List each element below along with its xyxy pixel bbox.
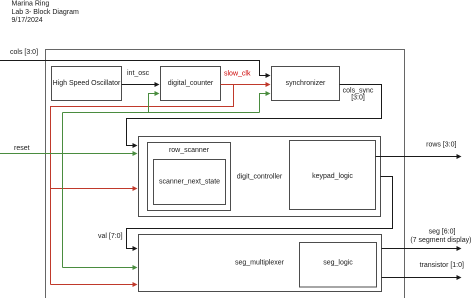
arrowhead reset into digital_counter [155, 91, 160, 96]
arrowhead slow_clk into digit_controller [133, 186, 138, 191]
arrowhead cols into synchronizer [266, 73, 271, 78]
wire reset distribution vertical (green) [62, 113, 64, 268]
arrowhead slow_clk into seg_multiplexer [133, 282, 138, 287]
wire reset branch up to digital_counter (green) [149, 94, 157, 113]
wire int_osc (black) [122, 84, 157, 86]
outer container box [46, 50, 405, 298]
block seg_multiplexer [139, 235, 382, 292]
block row_scanner [148, 143, 231, 211]
svg-text:rows [3:0]: rows [3:0] [426, 142, 456, 149]
svg-text:digit_controller: digit_controller [237, 173, 283, 180]
svg-text:keypad_logic: keypad_logic [312, 173, 353, 180]
wire slow_clk branch to seg_multiplexer (red) [51, 284, 135, 286]
wire reset (green) from left edge to digit_controller [0, 153, 135, 155]
svg-text:slow_clk: slow_clk [224, 71, 251, 78]
block High Speed Oscillator [52, 67, 122, 101]
wire slow_clk (red) to synchronizer [221, 84, 268, 86]
wire reset branch to seg_multiplexer (green) [63, 267, 135, 269]
wire seg output (black) [382, 248, 459, 250]
wire cols_sync (black): synchronizer output to digit_controller [127, 85, 382, 146]
svg-text:synchronizer: synchronizer [286, 80, 326, 87]
block keypad_logic [290, 141, 376, 210]
block digit_controller [139, 137, 381, 217]
arrowhead rows output [457, 154, 462, 159]
arrowhead transistor output [457, 275, 462, 280]
arrowhead slow_clk into synchronizer [266, 82, 271, 87]
svg-text:reset: reset [14, 145, 30, 152]
arrowhead int_osc into digital_counter [155, 82, 160, 87]
wire reset top horizontal (green) [63, 112, 260, 114]
arrowhead reset into synchronizer [266, 91, 271, 96]
arrowhead val into seg_multiplexer [133, 246, 138, 251]
arrowhead cols_sync into digit_controller [133, 143, 138, 148]
block digital_counter [161, 67, 221, 101]
svg-text:Lab 3- Block Diagram: Lab 3- Block Diagram [12, 9, 79, 16]
svg-text:int_osc: int_osc [127, 70, 150, 77]
arrowhead reset into seg_multiplexer [133, 265, 138, 270]
wire reset branch up to synchronizer (green) [260, 94, 268, 113]
svg-text:scanner_next_state: scanner_next_state [159, 179, 220, 186]
svg-text:[3:0]: [3:0] [351, 94, 365, 101]
svg-text:seg_multiplexer: seg_multiplexer [235, 260, 285, 267]
svg-text:seg [6:0]: seg [6:0] [429, 228, 456, 235]
block seg_logic [300, 243, 377, 288]
svg-text:9/17/2024: 9/17/2024 [12, 17, 43, 24]
node cols_sync [3:0] label [343, 88, 374, 102]
block synchronizer [272, 67, 340, 101]
svg-text:seg_logic: seg_logic [323, 260, 353, 267]
arrowhead reset into digit_controller [133, 151, 138, 156]
node seg [6:0] label [410, 228, 471, 244]
arrowhead seg output [457, 246, 462, 251]
block scanner_next_state [154, 160, 226, 205]
wire val (black) from digit_controller to seg_multiplexer [127, 177, 393, 249]
wire slow_clk branch to scanner_next_state (red) [51, 188, 135, 190]
title block text [12, 1, 79, 25]
wire transistor output (black) [382, 277, 459, 279]
svg-text:(7 segment display): (7 segment display) [410, 237, 471, 244]
svg-text:digital_counter: digital_counter [168, 80, 214, 87]
svg-text:val [7:0]: val [7:0] [98, 233, 123, 240]
svg-text:Marina Ring: Marina Ring [12, 1, 50, 8]
svg-text:High Speed Oscillator: High Speed Oscillator [53, 80, 121, 87]
svg-text:row_scanner: row_scanner [169, 147, 210, 154]
svg-text:transistor [1:0]: transistor [1:0] [420, 262, 464, 269]
wire cols input (black) [0, 61, 268, 76]
wire rows output (black) [376, 156, 459, 158]
svg-text:cols [3:0]: cols [3:0] [10, 49, 38, 56]
wire slow_clk distribution (red): down, left, down the left side [51, 85, 234, 285]
